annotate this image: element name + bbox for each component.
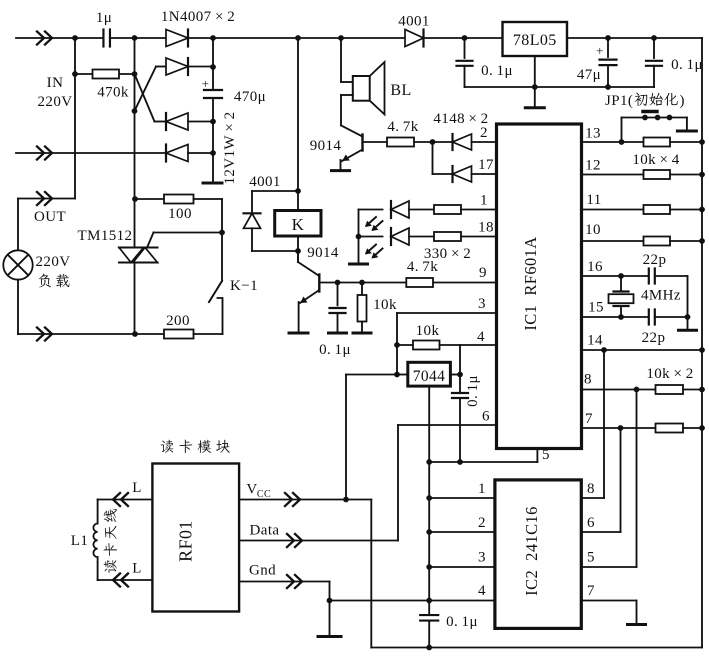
svg-text:4: 4 <box>477 329 485 345</box>
resistor R14 10k (pin7) <box>582 427 656 429</box>
svg-text:78L05: 78L05 <box>513 32 557 49</box>
svg-text:K: K <box>292 215 305 234</box>
svg-text:2: 2 <box>480 125 488 141</box>
svg-text:JP1(: JP1( <box>605 93 633 109</box>
ground : LED common <box>350 263 368 266</box>
svg-text:0. 1μ: 0. 1μ <box>446 614 478 630</box>
svg-text:22p: 22p <box>642 330 666 346</box>
ground : 78L05 <box>534 56 536 87</box>
LED VD2 (pin 18) <box>359 236 383 238</box>
svg-text:IN: IN <box>47 75 64 91</box>
jumper JP1 <box>622 117 687 119</box>
svg-text:17: 17 <box>478 157 494 173</box>
connector arrow IN line 1 <box>37 32 44 45</box>
wire : 7044 bottom to gnd bus <box>428 386 430 462</box>
wire : Vcc to +5V rail <box>370 500 372 648</box>
resistor R13 10k (pin8) <box>582 389 656 391</box>
capacitor C8 22p (pin16) <box>648 269 650 284</box>
wire : vertical x341 top rail to speaker <box>340 38 342 82</box>
label card antenna (vertical) <box>104 509 117 573</box>
wire : IC2 pin1 row <box>429 497 495 499</box>
svg-text:4. 7k: 4. 7k <box>387 119 418 135</box>
svg-text:6: 6 <box>587 515 595 531</box>
wire : IN line 2 (y153) <box>16 152 166 154</box>
svg-text:5: 5 <box>542 447 550 463</box>
svg-text:K−1: K−1 <box>230 278 258 294</box>
wire : vertical x75 (top rail to OUT row) <box>74 38 76 199</box>
triac gate wire <box>148 233 154 247</box>
svg-text:4MHz: 4MHz <box>641 288 681 304</box>
diode D3 zener (third, points left) <box>155 121 167 123</box>
wire : diagonal from 470k junction to D3 <box>135 74 155 122</box>
capacitor C4 0.1uF (base) <box>337 283 339 306</box>
connector arrow bottom row <box>37 328 44 341</box>
chip IC2 241C16 box <box>495 480 581 629</box>
wire : IC2 pin5 up to pin8(IC1) <box>581 566 636 568</box>
svg-text:100: 100 <box>168 206 192 222</box>
svg-text:1N4007 × 2: 1N4007 × 2 <box>161 9 235 25</box>
wire : 78L05 ground row y87 <box>465 86 655 88</box>
svg-text:12: 12 <box>585 158 601 174</box>
wire : Q2 base row y282.5 <box>319 282 406 284</box>
power rail : +5V right rail x702 <box>701 38 703 648</box>
capacitor C7 0.1uF (output) <box>651 35 657 41</box>
chip RF01 box <box>152 464 239 612</box>
wire : DC rail x213 with 470uF <box>212 38 214 90</box>
svg-text:220V: 220V <box>36 254 71 270</box>
wire : Data out <box>239 540 398 542</box>
capacitor C2 470uF electrolytic <box>204 89 222 91</box>
svg-text:10k × 2: 10k × 2 <box>646 366 693 382</box>
svg-text:7044: 7044 <box>413 368 446 385</box>
svg-text:22p: 22p <box>643 252 667 268</box>
node : junction top rail x75 <box>72 35 78 41</box>
svg-text:1μ: 1μ <box>96 10 112 26</box>
svg-text:14: 14 <box>587 333 603 349</box>
svg-text:4: 4 <box>478 583 486 599</box>
capacitor C6 47uF electrolytic <box>605 35 611 41</box>
svg-text:IC2 241C16: IC2 241C16 <box>522 506 541 596</box>
wire : gnd bus x429.5 <box>428 462 430 615</box>
LED VD1 (pin 1) <box>359 209 383 211</box>
svg-text:3: 3 <box>478 296 486 312</box>
wire : OUT row <box>18 198 75 200</box>
resistor R7 330 (pin 1) <box>434 205 461 214</box>
lamp : 220V load (circle-X) <box>3 250 32 279</box>
chip U3 7044 <box>408 362 451 386</box>
wire : top AC rail (IN line 1) <box>16 37 103 39</box>
svg-text:+: + <box>202 76 210 91</box>
wire : IC2 pin6 up to pin7(IC1) <box>581 531 620 533</box>
resistor R12 10k (pin10) <box>582 240 644 242</box>
wire : vertical x134.5 (to triac) <box>134 38 136 247</box>
wire : IC2 pin8 up to pin14 <box>581 497 604 499</box>
ground : RF01 Gnd <box>318 635 341 638</box>
resistor R3 200 <box>135 333 164 335</box>
diode D4 zener (fourth, points left, on IN line2) <box>166 145 188 162</box>
resistor R5 4.7k (pin 9) <box>406 278 433 287</box>
svg-text:3: 3 <box>478 550 486 566</box>
switch K-1 <box>209 281 222 302</box>
svg-text:RF01: RF01 <box>176 520 196 562</box>
resistor R8 330 (pin 18) <box>434 232 461 241</box>
ground : crystal caps <box>687 317 689 330</box>
wire : pin5 row <box>536 449 538 463</box>
wire : pin3 row <box>397 312 497 314</box>
diode V4 4148 (pin 17) <box>453 166 472 182</box>
wire : IC2 pin2 row <box>429 531 495 533</box>
wire : pin6 row <box>398 424 497 426</box>
resistor R11 10k (pin11) <box>582 209 644 211</box>
svg-text:4001: 4001 <box>398 14 430 30</box>
svg-text:OUT: OUT <box>34 209 66 225</box>
svg-text:47μ: 47μ <box>577 67 601 83</box>
svg-text:7: 7 <box>587 583 595 599</box>
wire : 7044 right link <box>450 374 460 376</box>
ground : Q2 emitter <box>298 302 300 333</box>
capacitor C10 0.1uF (7044) <box>459 375 461 393</box>
wire : Gnd drop <box>329 582 331 637</box>
wire : pin15 row <box>582 316 649 318</box>
capacitor C5 0.1uF (78L05 in) <box>462 35 468 41</box>
resistor R4 10k (base to gnd) <box>361 283 363 334</box>
svg-text:): ) <box>680 93 685 109</box>
triac TM1512 symbol <box>119 248 144 263</box>
svg-text:+: + <box>596 43 604 58</box>
wire : Gnd out <box>239 581 329 583</box>
svg-text:L: L <box>132 480 142 496</box>
svg-text:1: 1 <box>478 481 486 497</box>
resistor R6 4.7k (Q1 base) <box>363 141 388 143</box>
wire : speaker bottom to Q1 collector <box>341 94 353 96</box>
svg-text:4001: 4001 <box>249 174 281 190</box>
capacitor C11 0.1uF (IC2) <box>420 614 438 616</box>
wire : LED common drop x358.5 <box>358 210 360 265</box>
wire : antenna top row L <box>98 499 153 501</box>
svg-text:0. 1μ: 0. 1μ <box>465 375 481 407</box>
svg-text:9: 9 <box>479 265 487 281</box>
wire : corner x222 down to switch <box>221 199 223 281</box>
svg-text:330 × 2: 330 × 2 <box>424 246 471 262</box>
svg-text:10k: 10k <box>373 297 397 313</box>
ground : Q1 emitter <box>340 160 342 170</box>
svg-text:8: 8 <box>587 481 595 497</box>
speaker BL <box>353 76 370 101</box>
svg-text:IC1 RF601A: IC1 RF601A <box>521 236 540 330</box>
svg-text:0. 1μ: 0. 1μ <box>671 57 703 73</box>
wire : IC2 pin7 to ground <box>581 600 636 602</box>
capacitor C1 1uF <box>102 30 104 47</box>
svg-text:10k: 10k <box>416 323 440 339</box>
wire : vertical x298 (top rail down to relay) <box>297 38 299 211</box>
svg-text:470μ: 470μ <box>234 89 266 105</box>
svg-text:10k × 4: 10k × 4 <box>632 152 679 168</box>
connector arrow OUT <box>37 192 44 205</box>
wire : 4148 pair link <box>432 142 434 174</box>
wire : diagonal from D2 anode to x134.5 <box>135 67 157 112</box>
wire : relay to Q2 collector <box>297 236 299 262</box>
svg-text:16: 16 <box>587 259 603 275</box>
diode D2 1N4007 (second, crossed wiring) <box>156 66 166 68</box>
svg-text:V: V <box>246 482 257 498</box>
relay K coil box <box>275 211 321 237</box>
label card-reader module <box>161 440 174 453</box>
crystal B1 4MHz <box>620 276 622 292</box>
node : junction top rail x213 <box>210 35 216 41</box>
connector arrow IN line 2 <box>37 147 44 160</box>
diode V1 4001 (supply) <box>405 30 424 47</box>
svg-text:L1: L1 <box>71 533 88 549</box>
svg-text:9014: 9014 <box>310 138 342 154</box>
diode V3 4148 (pin 2) <box>453 134 472 150</box>
ground : JP1 <box>686 118 688 132</box>
wire : lamp to bottom AC row <box>17 280 19 334</box>
ground : IC2 pin7 <box>636 601 638 625</box>
svg-text:L: L <box>132 561 142 577</box>
inductor L1 antenna coil <box>97 500 99 524</box>
wire : Vcc out <box>239 499 371 501</box>
svg-text:220V: 220V <box>38 94 73 110</box>
resistor R15 10k (pin4) <box>397 344 413 346</box>
svg-text:0. 1μ: 0. 1μ <box>481 63 513 79</box>
svg-text:8: 8 <box>584 372 592 388</box>
regulator 78L05 <box>503 22 568 56</box>
svg-text:2: 2 <box>478 515 486 531</box>
svg-text:0. 1μ: 0. 1μ <box>319 342 351 358</box>
wire : pin14 row <box>582 349 703 351</box>
svg-text:470k: 470k <box>97 85 129 101</box>
svg-text:Gnd: Gnd <box>249 563 276 579</box>
resistor R2 100 <box>135 198 164 200</box>
svg-text:10: 10 <box>585 222 601 238</box>
resistor R10 10k (pin12) <box>582 174 644 176</box>
wire : 22p right link + ground <box>687 276 689 317</box>
svg-text:12V1W × 2: 12V1W × 2 <box>222 111 238 184</box>
wire : antenna bottom row L <box>98 579 153 581</box>
svg-text:13: 13 <box>585 126 601 142</box>
wire : pin16 row <box>582 275 649 277</box>
diode D1 1N4007 (top) <box>166 30 188 47</box>
svg-text:200: 200 <box>166 313 190 329</box>
svg-text:6: 6 <box>482 409 490 425</box>
svg-text:18: 18 <box>478 220 494 236</box>
wire : IC2 pin4 row <box>330 600 495 602</box>
node : junction top rail x134.5 <box>132 35 138 41</box>
svg-text:CC: CC <box>257 489 271 500</box>
resistor R1 470k <box>75 73 135 75</box>
svg-text:BL: BL <box>390 82 411 99</box>
svg-text:9014: 9014 <box>307 245 339 261</box>
diode V2 4001 (relay clamp) <box>252 190 298 192</box>
wire : triac vertical x134.5 lower <box>134 263 136 335</box>
resistor R9 10k (pin13) <box>582 141 644 143</box>
svg-text:1: 1 <box>480 193 488 209</box>
svg-text:15: 15 <box>588 300 604 316</box>
svg-text:11: 11 <box>586 192 601 208</box>
wire : left drop to lamp <box>17 199 19 251</box>
op IC1 RF601A box <box>497 124 582 449</box>
wire : 7044 left link <box>397 374 408 376</box>
svg-text:7: 7 <box>585 411 593 427</box>
svg-text:5: 5 <box>587 550 595 566</box>
ground : below 470uF <box>203 182 222 185</box>
svg-text:Data: Data <box>250 523 280 539</box>
capacitor C9 22p (pin15) <box>648 310 650 325</box>
wire : IC2 pin3 row <box>429 566 495 568</box>
wire : pin4 branch down x460 <box>459 345 461 375</box>
svg-text:TM1512: TM1512 <box>78 228 133 244</box>
wire : +5V bottom rail <box>371 647 702 649</box>
